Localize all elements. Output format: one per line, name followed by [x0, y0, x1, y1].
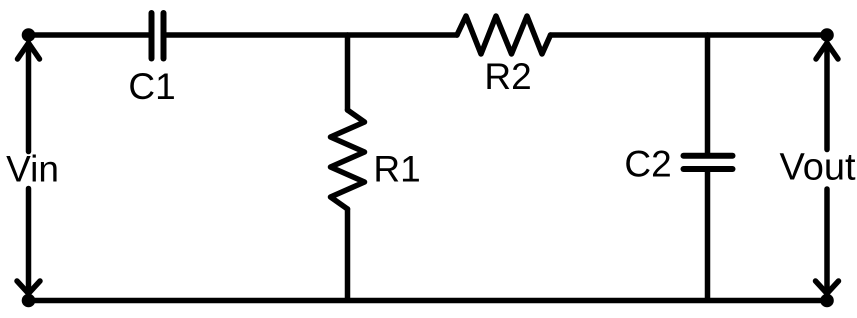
- svg-text:R1: R1: [373, 149, 420, 190]
- Vin arrow upper segment with up arrowhead: [18, 43, 40, 152]
- svg-text:C2: C2: [624, 143, 671, 184]
- wire: C2 branch, capacitor down to bottom rail: [705, 169, 711, 300]
- capacitor C2: [684, 156, 733, 169]
- node: top-right output junction: [820, 28, 834, 42]
- wire: top rail, input node to C1 left plate: [29, 32, 150, 38]
- node: bottom-right junction: [820, 294, 834, 308]
- node: top-left input junction: [22, 28, 36, 42]
- node: bottom-left junction: [22, 294, 36, 308]
- wire: top rail, R2 to output node: [551, 32, 828, 38]
- Vout arrow upper segment with up arrowhead: [816, 43, 838, 150]
- capacitor C1: [152, 13, 164, 59]
- wire: C2 branch, top rail down to capacitor: [705, 35, 711, 156]
- resistor R1: [331, 110, 365, 209]
- wire: R1 branch, top rail down to resistor: [345, 35, 351, 110]
- svg-text:R2: R2: [484, 56, 531, 97]
- Vin arrow lower segment with down arrowhead: [17, 189, 40, 294]
- wire: top rail, C1 right plate to R2: [166, 32, 457, 38]
- Vout arrow lower segment with down arrowhead: [816, 189, 839, 294]
- wire: bottom rail: [29, 298, 828, 304]
- wire: R1 branch, resistor down to bottom rail: [345, 209, 351, 300]
- resistor R2: [457, 16, 551, 54]
- svg-text:Vin: Vin: [6, 149, 59, 190]
- svg-text:Vout: Vout: [779, 147, 856, 189]
- svg-text:C1: C1: [128, 66, 175, 107]
